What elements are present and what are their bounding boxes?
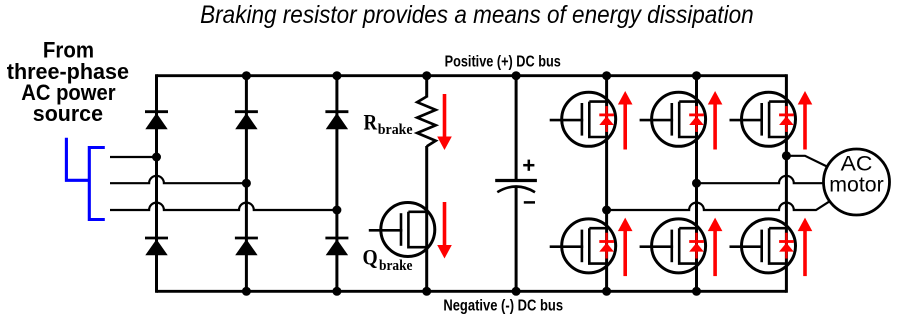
svg-text:brake: brake bbox=[379, 258, 413, 274]
wire: rectifier leg 3 bbox=[335, 74, 338, 292]
node: inverter leg 2 bottom bus bbox=[692, 287, 701, 296]
transistor Q2 (upper) bbox=[652, 92, 706, 146]
AC motor bbox=[824, 149, 890, 215]
node: inverter phase V junction bbox=[692, 179, 701, 188]
node: phase A junction bbox=[152, 153, 161, 162]
node: inverter leg 1 bottom bus bbox=[602, 287, 611, 296]
capacitor C1 plate (-) curved bbox=[497, 187, 535, 193]
svg-text:source: source bbox=[33, 101, 103, 126]
transistor Q4 (lower) bbox=[562, 219, 616, 273]
node: brake branch top bbox=[422, 71, 431, 80]
node: brake branch bottom bbox=[422, 287, 431, 296]
current arrow (Q1, up) bbox=[623, 104, 627, 150]
wire: inverter leg 1 bbox=[605, 74, 608, 292]
transistor Q3 (upper) bbox=[742, 92, 796, 146]
wire: negative DC bus bbox=[157, 290, 787, 293]
current arrow (Rbrake, down) bbox=[443, 94, 447, 138]
svg-text:Negative (-) DC bus: Negative (-) DC bus bbox=[443, 298, 563, 315]
node: leg 3 top bus bbox=[332, 71, 341, 80]
AC source bracket (blue) bbox=[89, 148, 105, 220]
node: inverter phase W junction bbox=[602, 206, 611, 215]
current arrow (Q3, up) bbox=[803, 104, 807, 150]
current arrow (Qbrake, down) bbox=[443, 202, 447, 246]
wire: capacitor upper lead bbox=[515, 76, 518, 180]
transistor Q1 (upper) bbox=[562, 92, 616, 146]
current arrow (Q6, up) bbox=[803, 230, 807, 276]
svg-text:R: R bbox=[364, 110, 378, 135]
node: leg 3 bottom bus bbox=[332, 287, 341, 296]
svg-text:motor: motor bbox=[829, 173, 883, 196]
svg-text:Q: Q bbox=[363, 245, 378, 270]
diode D3 (upper) bbox=[325, 110, 348, 113]
svg-text:Positive (+) DC bus: Positive (+) DC bus bbox=[445, 53, 561, 70]
wire: brake leg middle bbox=[425, 146, 428, 291]
node: inverter leg 1 top bus bbox=[602, 71, 611, 80]
wire: motor phase W bbox=[607, 202, 830, 210]
transistor Q6 (lower) bbox=[742, 219, 796, 273]
diode D5 (lower) bbox=[235, 237, 258, 240]
current arrow (Q4, up) bbox=[623, 230, 627, 276]
transistor Qbrake bbox=[381, 203, 435, 257]
diode D6 (lower) bbox=[325, 237, 348, 240]
resistor Rbrake bbox=[417, 97, 436, 147]
wire: inverter leg 3 bbox=[785, 74, 788, 292]
wire: motor phase V bbox=[697, 176, 824, 183]
wire: inverter leg 2 bbox=[695, 74, 698, 292]
node: phase B junction bbox=[242, 179, 251, 188]
wire: capacitor lower lead bbox=[515, 187, 518, 291]
capacitor + sign bbox=[523, 164, 534, 167]
AC source symbol (blue) bbox=[66, 138, 89, 181]
wire: positive DC bus bbox=[157, 74, 787, 77]
node: capacitor bottom bbox=[512, 287, 521, 296]
wire: phase C input bbox=[110, 203, 337, 210]
node: inverter phase U junction bbox=[782, 151, 791, 160]
wire: rectifier leg 1 bbox=[155, 74, 158, 292]
svg-text:AC: AC bbox=[841, 153, 873, 176]
wire: brake leg upper bbox=[425, 76, 428, 98]
diode D2 (upper) bbox=[235, 110, 258, 113]
wire: phase A input bbox=[110, 156, 157, 158]
diode D4 (lower) bbox=[145, 237, 168, 240]
capacitor - sign bbox=[524, 201, 535, 204]
diode D1 (upper) bbox=[145, 110, 168, 113]
current arrow (Q2, up) bbox=[713, 104, 717, 150]
transistor Q5 (lower) bbox=[652, 219, 706, 273]
node: inverter leg 2 top bus bbox=[692, 71, 701, 80]
wire: rectifier leg 2 bbox=[245, 74, 248, 292]
capacitor C1 plate (+) bbox=[495, 179, 537, 182]
node: leg 2 bottom bus bbox=[242, 287, 251, 296]
node: phase C junction bbox=[332, 206, 341, 215]
current arrow (Q5, up) bbox=[713, 230, 717, 276]
wire: phase B input bbox=[110, 176, 246, 183]
svg-text:Braking resistor provides a me: Braking resistor provides a means of ene… bbox=[200, 1, 754, 29]
node: leg 2 top bus bbox=[242, 71, 251, 80]
svg-text:brake: brake bbox=[378, 122, 413, 138]
node: capacitor top bbox=[512, 71, 521, 80]
wire: motor phase U bbox=[786, 156, 827, 167]
